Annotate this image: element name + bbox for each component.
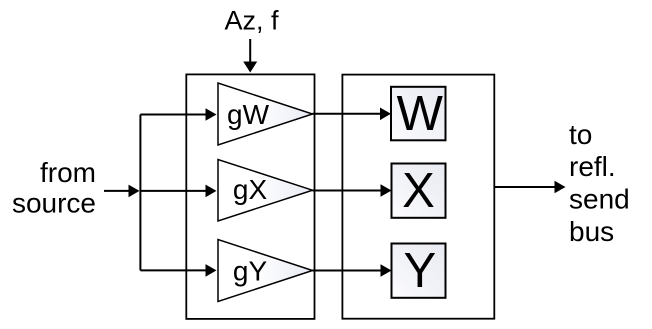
svg-text:Y: Y <box>403 244 436 298</box>
svg-text:X: X <box>402 164 435 218</box>
svg-text:to: to <box>569 119 592 150</box>
amplifier gW <box>218 83 313 145</box>
amplifier gX <box>218 160 313 222</box>
svg-text:bus: bus <box>569 216 614 247</box>
block X <box>392 164 446 218</box>
arrow gY to Y <box>313 264 392 277</box>
left box (amplifier bank) <box>186 74 314 319</box>
svg-text:gW: gW <box>227 99 270 130</box>
arrow gW to W <box>313 108 392 121</box>
branch arrow to gX <box>140 185 216 198</box>
branch arrow to gW <box>140 108 216 121</box>
arrow Az,f into left box <box>243 39 257 73</box>
block Y <box>392 244 446 298</box>
svg-text:send: send <box>569 184 630 215</box>
arrow gX to X <box>313 184 392 197</box>
input arrow from source <box>104 185 140 198</box>
block W <box>391 87 446 141</box>
svg-text:gX: gX <box>233 174 268 205</box>
svg-text:gY: gY <box>233 256 268 287</box>
svg-text:W: W <box>397 87 444 141</box>
branch vertical line <box>139 115 141 271</box>
branch arrow to gY <box>140 264 216 277</box>
svg-text:from: from <box>40 157 96 188</box>
svg-text:source: source <box>12 188 96 219</box>
amplifier gY <box>218 240 313 302</box>
output arrow to refl. send bus <box>495 181 566 194</box>
right box (W X Y bank) <box>342 75 494 319</box>
svg-text:Az, f: Az, f <box>225 6 280 36</box>
svg-text:refl.: refl. <box>569 151 616 182</box>
